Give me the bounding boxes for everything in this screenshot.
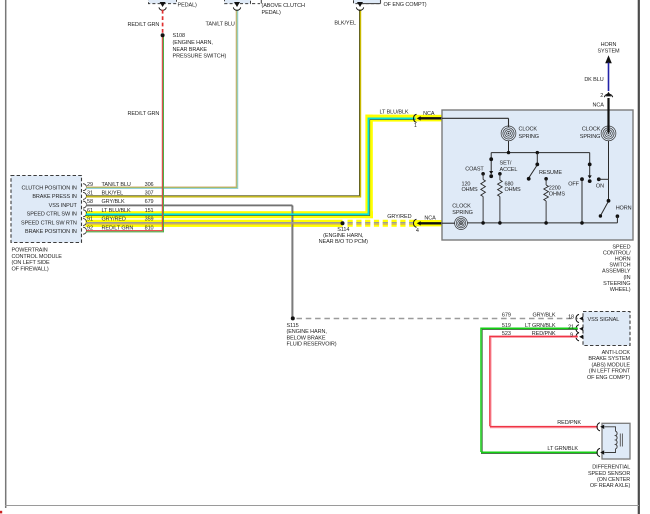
svg-text:523: 523	[502, 331, 511, 337]
svg-text:2200: 2200	[549, 185, 561, 191]
svg-text:SPRING: SPRING	[519, 134, 540, 140]
svg-text:SPEED CTRL SW RTN: SPEED CTRL SW RTN	[21, 220, 77, 226]
svg-text:BRAKE SYSTEM: BRAKE SYSTEM	[588, 356, 630, 362]
svg-text:VSS INPUT: VSS INPUT	[49, 203, 78, 209]
svg-text:OF FIREWALL): OF FIREWALL)	[12, 266, 49, 272]
svg-text:OHMS: OHMS	[462, 187, 479, 193]
svg-text:RED/LT GRN: RED/LT GRN	[127, 111, 159, 117]
svg-text:LT GRN/BLK: LT GRN/BLK	[547, 446, 578, 452]
svg-text:GRY/RED: GRY/RED	[102, 217, 126, 223]
svg-text:(IN LEFT FRONT: (IN LEFT FRONT	[589, 369, 631, 375]
svg-text:BELOW BRAKE: BELOW BRAKE	[287, 335, 326, 341]
svg-text:(ABS) MODULE: (ABS) MODULE	[591, 362, 630, 368]
svg-text:HORN: HORN	[615, 257, 631, 263]
svg-text:HORN: HORN	[601, 42, 617, 48]
svg-text:SPRING: SPRING	[580, 134, 601, 140]
svg-text:NCA: NCA	[424, 216, 436, 222]
svg-text:HORN: HORN	[616, 205, 632, 211]
svg-text:CONTROL MODULE: CONTROL MODULE	[12, 254, 63, 260]
svg-text:151: 151	[145, 208, 154, 214]
svg-text:359: 359	[145, 217, 154, 223]
svg-text:RESUME: RESUME	[539, 170, 562, 176]
svg-text:WHEEL): WHEEL)	[610, 287, 631, 293]
svg-text:BRAKE PRESS IN: BRAKE PRESS IN	[32, 194, 77, 200]
svg-text:PEDAL): PEDAL)	[178, 2, 198, 8]
svg-text:BLK/YEL: BLK/YEL	[334, 21, 356, 27]
svg-text:(ENGINE HARN,: (ENGINE HARN,	[287, 329, 328, 335]
svg-text:NEAR B/O TO PCM): NEAR B/O TO PCM)	[319, 239, 369, 245]
svg-text:OF REAR AXLE): OF REAR AXLE)	[590, 483, 631, 489]
svg-text:61: 61	[87, 208, 93, 214]
svg-text:S115: S115	[287, 323, 299, 329]
svg-text:679: 679	[502, 313, 511, 319]
svg-text:18: 18	[568, 314, 574, 320]
svg-text:519: 519	[502, 323, 511, 329]
svg-text:FLUID RESERVOIR): FLUID RESERVOIR)	[287, 342, 337, 348]
svg-text:(ABOVE CLUTCH: (ABOVE CLUTCH	[262, 3, 305, 9]
svg-text:SWITCH: SWITCH	[609, 263, 630, 269]
svg-text:GRY/BLK: GRY/BLK	[532, 313, 555, 319]
svg-text:CLOCK: CLOCK	[452, 204, 471, 210]
svg-text:CLUTCH POSITION IN: CLUTCH POSITION IN	[21, 186, 76, 192]
svg-text:4: 4	[416, 228, 419, 234]
svg-text:ON: ON	[596, 183, 604, 189]
svg-text:RED/PNK: RED/PNK	[532, 331, 556, 337]
svg-text:(ON LEFT SIDE: (ON LEFT SIDE	[12, 260, 50, 266]
svg-text:OHMS: OHMS	[549, 192, 566, 198]
svg-text:CLOCK: CLOCK	[519, 127, 538, 133]
svg-text:1: 1	[414, 123, 417, 129]
svg-text:OFF: OFF	[568, 181, 579, 187]
svg-text:(ENGINE HARN,: (ENGINE HARN,	[173, 40, 214, 46]
svg-text:SYSTEM: SYSTEM	[597, 49, 620, 55]
svg-text:RED/LT GRN: RED/LT GRN	[127, 22, 159, 28]
svg-text:BRAKE POSITION IN: BRAKE POSITION IN	[25, 229, 77, 235]
svg-text:NCA: NCA	[592, 102, 604, 108]
svg-text:91: 91	[87, 217, 93, 223]
svg-text:21: 21	[568, 325, 574, 331]
svg-text:ASSEMBLY: ASSEMBLY	[602, 269, 631, 275]
svg-text:VSS SIGNAL: VSS SIGNAL	[588, 317, 620, 323]
svg-text:OF ENG COMPT): OF ENG COMPT)	[587, 375, 630, 381]
svg-text:RED/PNK: RED/PNK	[557, 420, 581, 426]
svg-text:DK BLU: DK BLU	[584, 77, 603, 83]
svg-text:SPRING: SPRING	[452, 210, 473, 216]
svg-text:ANTI-LOCK: ANTI-LOCK	[602, 350, 631, 356]
svg-text:2: 2	[600, 93, 603, 99]
svg-text:GRY/RED: GRY/RED	[387, 214, 411, 220]
svg-text:(ON CENTER: (ON CENTER	[597, 477, 630, 483]
svg-text:SPEED: SPEED	[612, 244, 630, 250]
svg-text:PEDAL): PEDAL)	[262, 10, 282, 16]
svg-text:NEAR BRAKE: NEAR BRAKE	[173, 47, 208, 53]
svg-text:OF ENG COMPT): OF ENG COMPT)	[384, 2, 427, 8]
svg-text:STEERING: STEERING	[603, 281, 630, 287]
svg-text:S108: S108	[173, 33, 185, 39]
svg-text:SPEED CTRL SW IN: SPEED CTRL SW IN	[27, 212, 77, 218]
svg-text:LT BLU/BLK: LT BLU/BLK	[102, 208, 131, 214]
svg-text:CONTROL/: CONTROL/	[603, 250, 631, 256]
svg-text:OHMS: OHMS	[505, 187, 522, 193]
svg-text:ACCEL: ACCEL	[500, 167, 518, 173]
svg-text:9: 9	[570, 333, 573, 339]
svg-text:DIFFERENTIAL: DIFFERENTIAL	[592, 465, 630, 471]
svg-text:LT BLU/BLK: LT BLU/BLK	[379, 110, 408, 116]
svg-text:PRESSURE SWITCH): PRESSURE SWITCH)	[173, 54, 227, 60]
svg-text:SPEED SENSOR: SPEED SENSOR	[588, 471, 630, 477]
svg-text:NCA: NCA	[423, 111, 435, 117]
svg-text:LT GRN/BLK: LT GRN/BLK	[525, 323, 556, 329]
svg-text:CLOCK: CLOCK	[582, 127, 601, 133]
svg-text:TAN/LT BLU: TAN/LT BLU	[206, 22, 235, 28]
svg-text:COAST: COAST	[465, 167, 484, 173]
svg-text:(IN: (IN	[623, 275, 630, 281]
svg-text:POWERTRAIN: POWERTRAIN	[12, 248, 48, 254]
svg-text:SET/: SET/	[500, 161, 512, 167]
